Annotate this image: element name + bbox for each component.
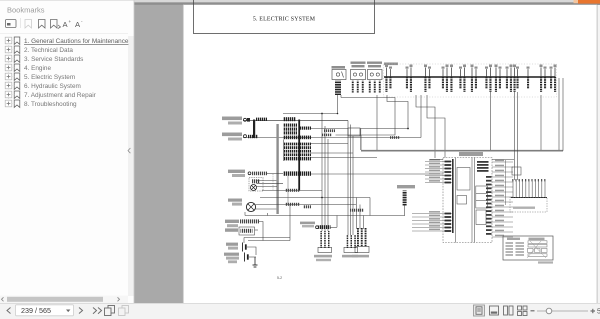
junction box J1 [311, 128, 361, 150]
monitor U1 right pin strip [477, 161, 492, 235]
sidebar horizontal scrollbar [0, 296, 128, 304]
timer T1 [342, 235, 358, 257]
white page [183, 5, 597, 303]
svg-text:1. General Cautions for Mainte: 1. General Cautions for Maintenance [24, 38, 129, 45]
wire label LW7 [350, 209, 364, 212]
wire battery feed [244, 205, 290, 244]
wire relay K2 to junction box [360, 95, 409, 129]
wire label LW6 [303, 205, 311, 208]
monitor U1 internal structure [456, 158, 488, 243]
wire label LW1 [285, 189, 300, 192]
page layout icons + zoom slider [474, 305, 600, 316]
connector block CB1 [283, 117, 296, 121]
wire bar W2 dark vertical through grid [298, 120, 300, 191]
relay K4 glow relay unit [314, 231, 332, 261]
wire bracket right labels [505, 160, 507, 205]
wire starter switch drop [338, 95, 342, 114]
wire relay K1 loop [336, 98, 396, 136]
wire fuse drop to monitor [416, 95, 445, 158]
wire label LW2 [285, 203, 300, 206]
svg-text:2. Technical Data: 2. Technical Data [24, 47, 73, 54]
alternator G1 [228, 199, 356, 212]
legend table L1 [503, 236, 553, 264]
battery BT2 external switch [224, 253, 256, 264]
connector X5 relay external [225, 227, 258, 235]
fusible link F1 dashed box [249, 178, 263, 192]
svg-text:Bookmarks: Bookmarks [7, 6, 45, 15]
bus B2 heavy feed to monitor [361, 78, 563, 151]
svg-text:5. Electric System: 5. Electric System [24, 74, 75, 81]
svg-text:8. Troubleshooting: 8. Troubleshooting [24, 101, 77, 108]
monitor U1 left pin labels [0, 0, 1, 1]
ground rail W3 [245, 212, 405, 216]
supply rail W4 [260, 197, 370, 216]
wire label LW5 [390, 136, 400, 139]
fuse pins and labels on bus B1 [385, 65, 557, 93]
connector X4 glow unit [225, 219, 263, 240]
battery relay K3 [251, 181, 323, 191]
sidebar icon toolbar [0, 18, 128, 34]
connector bank CN1 base box [510, 198, 547, 213]
svg-text:239 / 565: 239 / 565 [21, 306, 51, 315]
bookmark tree [8, 41, 10, 104]
connector X2 glow plug fuse sub [222, 133, 258, 141]
relay K2 (heater relay coil) [367, 62, 382, 93]
splitter collapse arrow [128, 148, 130, 153]
connector block CB4 [283, 136, 311, 140]
harness H0 thick grey bundle [276, 124, 278, 214]
connector X6 chassis-timer [300, 216, 337, 230]
connector X1 glow plug fuse main [222, 117, 267, 125]
svg-text:5. ELECTRIC SYSTEM: 5. ELECTRIC SYSTEM [253, 17, 316, 23]
wire label LW4 [322, 134, 332, 137]
wire bar W1 dark vertical [253, 120, 255, 139]
wire branch [287, 176, 289, 205]
svg-text:7. Adjustment and Repair: 7. Adjustment and Repair [24, 92, 97, 99]
status bar [0, 303, 600, 319]
wire dashed drop [272, 174, 274, 190]
svg-text:4. Engine: 4. Engine [24, 65, 51, 72]
connector bank CN1 comb [512, 179, 545, 198]
svg-text:+: + [69, 19, 72, 24]
connector block CB2 [283, 124, 297, 135]
document area background [134, 0, 600, 303]
fuse box FB1 label [384, 63, 398, 66]
connector block CB3 [300, 127, 311, 130]
connector X3 glow timer fuse [228, 170, 283, 177]
connector grid G1 [283, 143, 311, 161]
sidebar panel [0, 0, 134, 303]
monitor U1 left pin strip [412, 159, 454, 233]
connector row G2 [283, 171, 311, 175]
ground GND1 [253, 257, 258, 267]
svg-text:3. Service Standards: 3. Service Standards [24, 56, 83, 63]
relay K1 (safety relay coil) [351, 62, 366, 93]
prev/next view icons [105, 306, 129, 316]
svg-text:6. Hydraulic System: 6. Hydraulic System [24, 83, 81, 90]
fuse box FB1 dashed boundary [384, 64, 557, 97]
svg-text:5-2: 5-2 [277, 276, 282, 280]
node A main feed junction [243, 113, 348, 121]
wire comb feed [430, 92, 521, 180]
page footer number [277, 276, 282, 280]
battery BT1 [226, 243, 256, 256]
bus B1 fuse supply bus [384, 76, 556, 78]
switch S1 starter switch [332, 66, 347, 95]
wire drop net D1 [322, 114, 364, 236]
monitor unit U1 dashed enclosure [443, 152, 492, 243]
wire long return net [243, 95, 421, 138]
relay K5 safety relay [352, 228, 369, 257]
diode D2 pulse diode [397, 185, 415, 216]
wire label LW3 [324, 129, 335, 132]
monitor U1 right pin labels [492, 160, 513, 237]
wire grid left edge [282, 140, 284, 162]
wire stubs grid to center [311, 144, 444, 175]
title box [194, 0, 375, 34]
